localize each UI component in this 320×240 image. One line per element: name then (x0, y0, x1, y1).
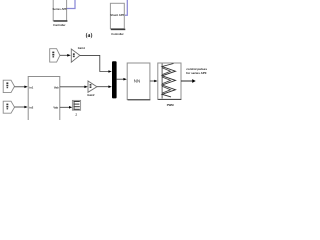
wire from T1 output (violet) (67, 0, 75, 9)
wire Gain1 to mux input 1 (80, 55, 112, 72)
svg-text:(a): (a) (86, 32, 93, 39)
svg-text:Controller: Controller (111, 32, 123, 36)
svg-text:Vab: Vab (53, 106, 58, 110)
wire into T2 right side (violet) (125, 0, 127, 15)
svg-text:in1: in1 (29, 85, 33, 89)
block PWM generator (158, 63, 181, 100)
block scope 2 (72, 100, 80, 110)
svg-text:Shunt APF: Shunt APF (110, 13, 124, 17)
svg-text:2: 2 (75, 113, 77, 117)
subsystem U1 (28, 77, 60, 123)
from tag A (3, 80, 14, 92)
svg-text:PWM: PWM (167, 103, 175, 107)
svg-text:for series APF: for series APF (186, 71, 207, 75)
from tag C (50, 49, 60, 62)
wire B to in2 (15, 106, 28, 109)
block NN (127, 63, 150, 100)
wire C to Gain1 (60, 54, 71, 57)
gain Gain1 (71, 49, 80, 62)
wire PWM to output (181, 79, 196, 83)
wire out2 to store block (60, 106, 73, 109)
svg-text:NN: NN (134, 79, 141, 84)
block T2 Shunt APF Controller (110, 3, 125, 29)
from tag B (3, 101, 14, 113)
svg-text:in2: in2 (29, 106, 33, 110)
wire out1 to Gain2 (60, 86, 88, 89)
gain Gain2 (88, 81, 97, 92)
wire NN to PWM (150, 80, 158, 83)
svg-text:Vab: Vab (54, 85, 59, 89)
svg-text:Controller: Controller (53, 23, 65, 27)
block T1 Series APF Controller (52, 0, 67, 21)
mux M1 (112, 61, 117, 98)
svg-text:Series APF: Series APF (52, 7, 67, 11)
wire mux to NN (117, 78, 127, 81)
svg-text:Gain1: Gain1 (78, 46, 86, 50)
wire Gain2 to mux input 2 (97, 85, 112, 88)
svg-text:Gain2: Gain2 (87, 93, 95, 97)
wire A to in1 (15, 86, 28, 89)
annotation control pulses for series APF (186, 67, 207, 75)
